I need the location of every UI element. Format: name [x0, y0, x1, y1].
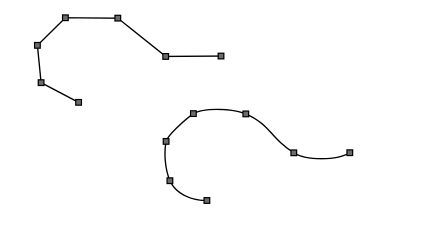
node D: [63, 15, 69, 21]
node M: [167, 178, 173, 184]
node C: [35, 43, 41, 49]
node I: [191, 111, 197, 117]
node E: [115, 15, 121, 21]
node H: [163, 139, 169, 145]
node B: [38, 80, 44, 86]
node L: [347, 150, 353, 156]
wire polyline P1: [37, 18, 221, 103]
node K: [291, 150, 297, 156]
wire spline P2: [165, 109, 350, 200]
node N: [204, 198, 210, 204]
node F: [163, 54, 169, 60]
node G: [218, 53, 224, 59]
node J: [243, 111, 249, 117]
node A: [76, 100, 82, 106]
